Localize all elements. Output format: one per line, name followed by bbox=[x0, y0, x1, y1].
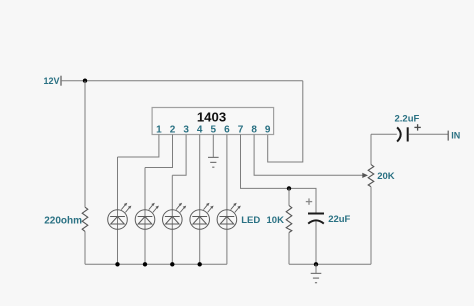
IC U1 1403 box bbox=[152, 108, 274, 135]
svg-text:4: 4 bbox=[197, 125, 203, 136]
wire pin7 to 10K/22uF node bbox=[241, 135, 317, 214]
wire left vertical to resistor bbox=[84, 81, 86, 208]
wire 12V down-right corner to pin9 bbox=[268, 81, 303, 162]
wire LED bottom rail bbox=[85, 263, 227, 265]
node dot LED3 rail bbox=[170, 262, 174, 266]
plus sign 22uF bbox=[306, 198, 312, 204]
capacitor 2.2uF bbox=[371, 133, 397, 135]
svg-text:9: 9 bbox=[265, 125, 271, 136]
svg-text:6: 6 bbox=[224, 125, 230, 136]
svg-text:20K: 20K bbox=[377, 171, 395, 182]
node junction dot 12V/resistor bbox=[83, 79, 87, 83]
wire 12V rail bbox=[61, 80, 303, 82]
LED D1 bbox=[108, 157, 132, 264]
node dot LED2 rail bbox=[143, 262, 147, 266]
wire pin8 to 20K wiper bbox=[254, 135, 363, 176]
svg-text:10K: 10K bbox=[267, 215, 285, 226]
resistor 220ohm bbox=[82, 207, 88, 231]
svg-text:2: 2 bbox=[170, 125, 176, 136]
node dot LED4 rail bbox=[198, 262, 202, 266]
capacitor 22uF bbox=[308, 213, 324, 215]
svg-text:1403: 1403 bbox=[197, 109, 226, 124]
wire pin3 to LED3 bbox=[172, 135, 186, 176]
node junction dot 10K top bbox=[287, 186, 291, 190]
ground under pin5 bbox=[208, 157, 219, 167]
svg-text:220ohm: 220ohm bbox=[44, 216, 82, 227]
ground right bbox=[315, 264, 317, 273]
wire right bottom rail bbox=[289, 263, 371, 265]
resistor 10K bbox=[288, 188, 290, 205]
wire pin1 to LED1 bbox=[118, 135, 159, 158]
node dot LED1 rail bbox=[115, 262, 119, 266]
LED D3 bbox=[163, 175, 187, 264]
LED D4 bbox=[190, 135, 214, 265]
svg-text:12V: 12V bbox=[43, 76, 59, 86]
potentiometer 20K bbox=[370, 134, 372, 164]
svg-text:2.2uF: 2.2uF bbox=[395, 113, 420, 124]
wire resistor bottom to LED rail bbox=[84, 231, 86, 264]
node 12V port tick bbox=[60, 76, 62, 86]
wiper arrowhead of 20K bbox=[362, 173, 368, 178]
svg-text:1: 1 bbox=[156, 125, 162, 136]
svg-text:LED: LED bbox=[241, 215, 260, 226]
svg-text:7: 7 bbox=[238, 125, 244, 136]
wire pin5 ground stem bbox=[212, 135, 214, 158]
node dot 22uF bottom/ground bbox=[314, 262, 318, 266]
svg-text:3: 3 bbox=[183, 125, 189, 136]
LED D2 bbox=[135, 168, 159, 265]
plus sign 2.2uF bbox=[414, 124, 420, 130]
LED D5 bbox=[217, 135, 241, 265]
svg-text:IN: IN bbox=[451, 130, 460, 140]
node IN port tick bbox=[447, 131, 449, 141]
svg-text:8: 8 bbox=[251, 125, 257, 136]
svg-text:22uF: 22uF bbox=[328, 214, 350, 225]
wire pin2 to LED2 bbox=[145, 135, 173, 168]
svg-text:5: 5 bbox=[211, 125, 217, 136]
